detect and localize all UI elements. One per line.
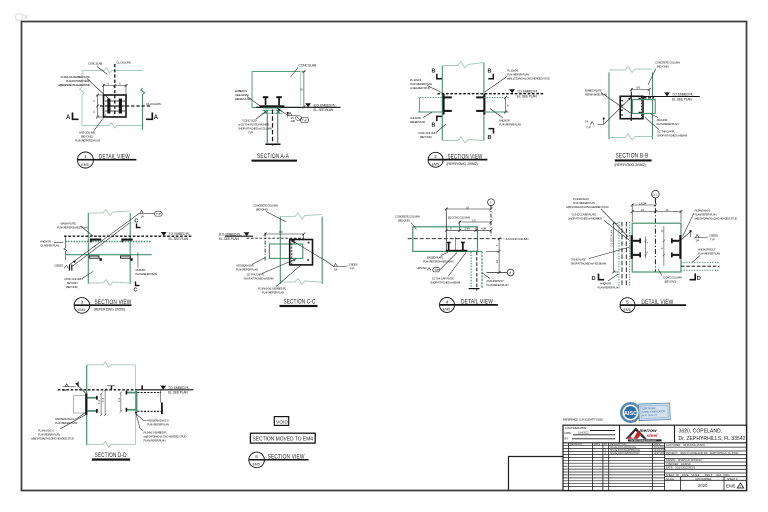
svg-text:2020: 2020 [698, 483, 708, 488]
svg-text:VOID: VOID [276, 419, 288, 425]
svg-text:DRAWN: MSD/CAD 10/4/2022: DRAWN: MSD/CAD 10/4/2022 [666, 459, 702, 462]
svg-text:(BEYOND): (BEYOND) [398, 219, 410, 223]
svg-text:SECTION B-B: SECTION B-B [616, 153, 649, 160]
washer lines under plate [262, 109, 283, 111]
stud cross ticks [105, 101, 125, 111]
svg-text:DATE: DATE [594, 443, 601, 446]
svg-text:PLAN REFER PLAN: PLAN REFER PLAN [499, 123, 521, 127]
svg-text:3620, COPELAND,: 3620, COPELAND, [679, 428, 723, 434]
left beam top flange green [87, 397, 97, 399]
bolt marks [293, 241, 310, 261]
vertical line C/L conc column [445, 212, 447, 251]
title bar [280, 305, 318, 307]
right I-beam stub bottom [672, 254, 680, 256]
top dim row 1 [631, 198, 657, 222]
elevation triangle marker [305, 103, 311, 107]
stud left [265, 98, 267, 106]
right embed plate (channel shape) [476, 94, 484, 115]
conc column right edge [321, 217, 323, 284]
svg-text:SECTION C-C: SECTION C-C [284, 299, 316, 306]
svg-text:TYP.: TYP. [248, 131, 253, 135]
column centerline vertical dashed [114, 64, 116, 117]
svg-text:1/16: 1/16 [291, 119, 296, 123]
detail 3 title line [428, 159, 487, 161]
dash-dot vertical [264, 233, 266, 261]
I-beam 1 (stud) [448, 243, 450, 250]
top break [609, 67, 653, 73]
dim extension lines above plate [102, 84, 128, 94]
green anchor line right bottom [484, 111, 509, 113]
svg-text:(E) CONC COLUMN: (E) CONC COLUMN [448, 216, 470, 220]
svg-text:SECTION A-A: SECTION A-A [257, 153, 289, 160]
svg-text:EM5: EM5 [432, 163, 439, 167]
svg-text:CONC SLAB: CONC SLAB [299, 64, 317, 68]
svg-text:JOB NUMBER: JOB NUMBER [695, 478, 712, 481]
beam beyond light rect [74, 396, 87, 413]
weld leader top-right [682, 232, 691, 240]
inner dashed vertical [291, 240, 293, 265]
svg-text:Dr. ZEPHYRHILLS, FL 33542: Dr. ZEPHYRHILLS, FL 33542 [679, 436, 746, 442]
detail 5 title bubble [74, 298, 90, 314]
long diagonal leader 2 [73, 223, 130, 266]
green dotted line [65, 241, 151, 243]
HSS column right wall [277, 111, 279, 144]
svg-text:4 3/4: 4 3/4 [481, 227, 487, 231]
channel flange end ticks [126, 391, 128, 395]
wall top break line [87, 362, 136, 368]
elevation triangle [509, 89, 515, 93]
detail 1 title line [77, 159, 136, 161]
revision triangle [737, 483, 743, 488]
T.O. embed dashed line [437, 93, 544, 95]
elevation triangle [664, 92, 670, 96]
top break [280, 213, 322, 219]
right assembly: channel web green [135, 390, 137, 412]
svg-text:EM5: EM5 [726, 484, 736, 489]
top break [88, 210, 130, 216]
section marker B bottom-left [437, 116, 442, 121]
svg-text:C/L REFER PLAN: C/L REFER PLAN [40, 244, 59, 248]
embed plate bottom bar [446, 250, 468, 252]
grid line right vertical (green) [141, 88, 145, 130]
elevation triangle [244, 232, 250, 236]
grid bubble 8 with line [486, 272, 507, 274]
TYP hexagon [300, 118, 309, 123]
svg-text:10/4/2022: 10/4/2022 [578, 432, 589, 435]
concrete column green rect [632, 223, 681, 272]
elevation triangle [161, 232, 167, 236]
detail 8 title bubble [620, 298, 635, 313]
svg-text:SHEET #: SHEET # [727, 478, 738, 481]
svg-text:EL. SEE PLAN: EL. SEE PLAN [314, 108, 334, 112]
svg-text:PLAN REFER PLAN: PLAN REFER PLAN [262, 291, 284, 295]
svg-text:SHOP ATTACHED w/ MEMBER: SHOP ATTACHED w/ MEMBER [568, 217, 602, 221]
weld arrow top-left [75, 383, 78, 386]
left beam bottom flange green [87, 410, 97, 412]
svg-text:EM5: EM5 [78, 308, 85, 312]
svg-text:TYP: TYP [350, 267, 355, 271]
svg-text:A: A [66, 115, 71, 121]
svg-text:4: 4 [446, 299, 449, 304]
diagonal weld leader [292, 240, 328, 262]
section marker D right [690, 274, 696, 280]
column face solid vertical [630, 92, 632, 122]
svg-text:EM5: EM5 [253, 463, 260, 467]
svg-text:3 SIDES: 3 SIDES [54, 264, 63, 268]
conc column left edge [608, 72, 610, 139]
svg-text:& D CONC COLUMN: & D CONC COLUMN [506, 237, 529, 241]
column centerline dashed horizontal [408, 238, 505, 240]
svg-text:SHOP ATTACHED w/ BEAM: SHOP ATTACHED w/ BEAM [244, 277, 275, 281]
top dim row 2 [631, 210, 683, 222]
weld tick above line [111, 385, 113, 389]
merrow steel logo [626, 428, 662, 443]
svg-text:6: 6 [255, 454, 258, 459]
svg-text:CHECKED: AS/MSD: CHECKED: AS/MSD [666, 463, 691, 466]
svg-text:HSS (SA): HSS (SA) [417, 266, 427, 270]
title bar [615, 159, 652, 161]
svg-text:(BEYOND): (BEYOND) [665, 280, 677, 284]
right embed plate thick bar [679, 235, 681, 259]
svg-text:REVISION: REVISION [570, 443, 582, 446]
title block outer frame [563, 425, 747, 490]
plate end ticks [90, 241, 133, 261]
vertical dim right [486, 237, 501, 274]
svg-text:PLAN REFER PLAN: PLAN REFER PLAN [144, 439, 166, 443]
svg-text:T.O. EMBED PL.: T.O. EMBED PL. [169, 232, 191, 236]
svg-text:PLAN REFER PLAN: PLAN REFER PLAN [698, 252, 720, 256]
HSS beam green rect overlay [632, 100, 655, 114]
svg-text:SHOP ATTACHED w/ BEAM: SHOP ATTACHED w/ BEAM [657, 134, 688, 138]
svg-text:PLAN REFER BASED PLAN: PLAN REFER BASED PLAN [423, 260, 454, 264]
weld flag [289, 112, 293, 115]
title bar [92, 458, 130, 460]
svg-text:C: C [134, 288, 138, 294]
svg-text:EL. SEE PLAN: EL. SEE PLAN [169, 237, 189, 241]
HSS column left wall [266, 111, 268, 144]
right beam dashed lines [681, 261, 720, 263]
column below: green dotted verticals [470, 252, 472, 289]
left wall black dashed lines [621, 222, 623, 287]
svg-text:1 3/4: 1 3/4 [465, 227, 471, 231]
bottom break [609, 134, 653, 140]
conc column left edge with breaks [441, 66, 443, 141]
embed plate black rect [290, 240, 313, 265]
bolt marks [639, 98, 641, 114]
T.O. embed dashed line [58, 389, 137, 391]
svg-text:w/(8) 3/4"DIAx0'-6"LONG HEADED: w/(8) 3/4"DIAx0'-6"LONG HEADED STUD [58, 83, 90, 87]
faint corner mark [16, 14, 29, 21]
svg-text:B: B [488, 135, 492, 141]
svg-text:steel: steel [647, 433, 659, 438]
svg-text:CUSTOMER: 3D PLUS & ASSOC.: CUSTOMER: 3D PLUS & ASSOC. [666, 444, 706, 447]
svg-text:B: B [432, 69, 436, 75]
dim marks left of channel [120, 391, 123, 412]
svg-text:TYP: TYP [710, 238, 715, 242]
bottom plate right [121, 256, 131, 258]
top break line [442, 62, 484, 69]
svg-text:(REFER DWG. 2/S502): (REFER DWG. 2/S502) [447, 162, 478, 166]
long diagonal leader 1 [69, 213, 139, 265]
svg-text:PLAN REFER PLAN: PLAN REFER PLAN [135, 272, 157, 276]
concrete column green rect [413, 227, 478, 252]
approvals cell divider [619, 425, 621, 443]
bottom break [88, 280, 130, 286]
svg-text:1'-4: 1'-4 [102, 397, 105, 402]
detail 3 title bubble [428, 152, 443, 167]
dim extension lines left of plate [96, 94, 103, 119]
grid bubble 11.5 [652, 190, 660, 198]
T.O. embed line [643, 96, 700, 98]
leader arrow down from channel [135, 412, 138, 415]
HSS beam green rect [269, 244, 302, 258]
hidden edge dashed vertical [641, 97, 643, 118]
conc column left edge [87, 213, 89, 284]
inner dim left [644, 237, 647, 259]
TYP hexagon top-right [154, 212, 162, 217]
detail 1 title bubble [77, 152, 93, 168]
section marker B bottom-right [489, 129, 494, 134]
project info sub-table [665, 447, 747, 490]
conc column right edge [652, 72, 654, 139]
grid centerline vertical [654, 198, 656, 272]
svg-text:EL. SEE PLAN: EL. SEE PLAN [517, 94, 537, 98]
embed plate square (plan) [104, 95, 127, 117]
slab bottom green line [252, 107, 301, 109]
column centerline [272, 110, 274, 146]
leader embed plate label [87, 79, 110, 100]
weld symbol leader [278, 109, 297, 116]
svg-text:PLAN REFER PLAN: PLAN REFER PLAN [486, 283, 508, 287]
stud column left [107, 99, 110, 114]
svg-text:B: B [432, 123, 436, 129]
svg-text:TYP: TYP [434, 268, 439, 272]
dim above plate [630, 88, 651, 96]
wall right edge green light [134, 365, 136, 445]
tick above T.O. line [141, 385, 143, 389]
svg-text:5: 5 [626, 300, 629, 305]
small arrow mark [603, 118, 605, 120]
svg-text:TYP: TYP [302, 118, 307, 122]
svg-text:D: D [592, 276, 596, 282]
column bottom end bar [265, 144, 280, 146]
channel bottom flange green [126, 409, 135, 411]
stud double tick [70, 265, 72, 271]
green solid line [65, 254, 151, 256]
svg-text:(BEYOND): (BEYOND) [657, 65, 669, 69]
svg-text:(BEYOND): (BEYOND) [256, 208, 268, 212]
svg-text:1'-0 3/4: 1'-0 3/4 [639, 201, 647, 205]
bottom plate left [89, 256, 99, 258]
svg-text:AISC: AISC [624, 411, 637, 417]
flange end ticks [96, 396, 98, 400]
green band under plate [263, 107, 282, 109]
svg-text:EL. SEE PLAN: EL. SEE PLAN [168, 391, 188, 395]
svg-text:SHOP ATTACHED w/ HSS BEAM: SHOP ATTACHED w/ HSS BEAM [571, 262, 607, 266]
grid bubble 9 [488, 199, 495, 206]
channel top flange green [126, 392, 135, 394]
svg-text:T.O. EMBED PL.: T.O. EMBED PL. [168, 386, 190, 390]
green dotted anchor line left [420, 97, 443, 99]
left anchor vertical [419, 98, 421, 113]
wall left edge green [86, 365, 88, 445]
svg-text:CUSTOMER APPR:: CUSTOMER APPR: [565, 426, 587, 430]
svg-text:w/(8) 3/4 DIAx0'-6 LONG HEADED: w/(8) 3/4 DIAx0'-6 LONG HEADED STUD [695, 217, 738, 221]
weld flag right [695, 237, 702, 239]
VOID box [274, 417, 288, 426]
small dims row [445, 227, 493, 232]
svg-text:AISC QUALITY: AISC QUALITY [642, 414, 658, 418]
svg-text:The Steel Detailing profession: The Steel Detailing professionals [630, 439, 656, 442]
embed plate assembly rect [620, 96, 643, 118]
embed plate bar [260, 105, 285, 107]
svg-text:1: 1 [84, 154, 87, 159]
slab dim right [302, 70, 306, 108]
conc slab outline left edge with break [80, 71, 85, 126]
section A-A title bar [252, 160, 298, 162]
empty cell box left of title block [509, 457, 564, 491]
detail 10 title bubble [249, 452, 265, 468]
svg-text:B.O. EMBED PL.: B.O. EMBED PL. [219, 232, 242, 236]
svg-text:w/(8) 3/4 DIAx0'-6 LONG HEADED: w/(8) 3/4 DIAx0'-6 LONG HEADED STUD [566, 205, 609, 209]
inner dim right extension [663, 226, 666, 266]
svg-text:11.5: 11.5 [652, 192, 657, 196]
T.O. embed dashed line [64, 235, 192, 237]
svg-text:T.O. EMBED PL.: T.O. EMBED PL. [672, 93, 694, 97]
svg-text:(REFER DWG. 2/S502): (REFER DWG. 2/S502) [94, 308, 125, 312]
B.O. embed line [225, 235, 253, 237]
svg-text:w/(4) 1/2"DIAx0'-4 LONG HEADED: w/(4) 1/2"DIAx0'-4 LONG HEADED STUD [507, 77, 550, 81]
column centerline horizontal dashed [100, 105, 152, 107]
svg-text:DATE: 10/27/2022 REV2: DATE: 10/27/2022 REV2 [666, 467, 696, 470]
left I-beam stub bottom [633, 254, 641, 256]
svg-text:PLAN REFER PLAN: PLAN REFER PLAN [657, 122, 679, 126]
svg-text:SHEET OF DATE SCALE: SHEET OF DATE SCALE REV # REF DWG [666, 474, 730, 477]
dim lines right of left assembly [100, 389, 107, 417]
title line [249, 459, 309, 461]
green anchor line left bottom [418, 111, 443, 113]
svg-text:EM5: EM5 [443, 308, 450, 312]
weld leader bottom-left [598, 98, 632, 125]
dashed horizontal centerline [247, 237, 304, 239]
svg-text:PLAN REFER PLAN: PLAN REFER PLAN [147, 423, 169, 427]
svg-text:BY: BY [604, 443, 608, 446]
title line [74, 304, 131, 306]
dim line 2 [458, 221, 492, 227]
svg-text:PLAN REFER PLAN: PLAN REFER PLAN [236, 268, 258, 272]
svg-text:T.O. EMBED PL.: T.O. EMBED PL. [517, 90, 539, 94]
left I-beam stub top [633, 240, 641, 242]
wall bottom break line [87, 442, 136, 448]
detail 7 title bubble [440, 298, 455, 313]
green dotted anchor line right [484, 97, 509, 99]
svg-text:D: D [697, 276, 701, 282]
revision table [569, 443, 665, 491]
svg-text:w/ HEADED STUD: w/ HEADED STUD [410, 86, 430, 90]
leader CONC SLAB [97, 67, 108, 75]
elevation triangle [160, 386, 166, 390]
dim line 1 [445, 206, 493, 212]
leader HSS column label [94, 115, 106, 131]
conc column right edge [483, 63, 485, 141]
B.O. embed pl line (black) [256, 106, 341, 108]
green beam line to column edge [467, 250, 482, 252]
svg-text:B: B [488, 69, 492, 75]
column bottom end tick [469, 288, 480, 289]
svg-text:(REFER DWG. 2/S502): (REFER DWG. 2/S502) [615, 163, 646, 167]
svg-text:2'-0 SEE PLAN: 2'-0 SEE PLAN [611, 230, 614, 247]
svg-text:EM5: EM5 [624, 308, 631, 312]
leader arrowhead [73, 261, 76, 264]
svg-text:PLAN ROTATED PLAN: PLAN ROTATED PLAN [75, 139, 100, 143]
conc slab outline top edge with break [82, 68, 143, 73]
slab right edge thin [300, 72, 302, 106]
top plate left [90, 239, 101, 241]
svg-text:ISSUE FOR FABRICATION: ISSUE FOR FABRICATION [610, 452, 640, 455]
AISC logo [621, 403, 670, 422]
left wall dotted green lines [618, 222, 620, 287]
column below: black dashed centerline [476, 252, 478, 291]
nut left (green X) [264, 110, 268, 114]
svg-text:w/(8) 3/4"DIAx0'-6"LONG HEADED: w/(8) 3/4"DIAx0'-6"LONG HEADED STUD [31, 437, 74, 441]
dashed hidden lines right [137, 392, 161, 394]
thin vertical line [159, 390, 161, 403]
SECTION MOVED TO EM4 box [250, 433, 315, 443]
svg-text:1'-2: 1'-2 [118, 397, 121, 402]
svg-text:(BEYOND): (BEYOND) [420, 135, 432, 139]
top plate right [121, 239, 132, 241]
svg-text:EL. SEE PLAN: EL. SEE PLAN [672, 97, 692, 101]
svg-text:SECTION MOVED TO EM4: SECTION MOVED TO EM4 [253, 436, 314, 442]
right I-beam stub top [672, 240, 680, 242]
left embed plate (channel shape) [444, 94, 452, 115]
svg-text:C/L COLUMN: C/L COLUMN [116, 61, 131, 65]
svg-text:C/L COLUMN: C/L COLUMN [146, 102, 161, 106]
svg-text:A: A [154, 115, 159, 121]
section marker C bottom [136, 282, 140, 286]
svg-text:B.O. EMBED PL.: B.O. EMBED PL. [314, 103, 337, 107]
svg-text:EL. SEE PLAN: EL. SEE PLAN [219, 237, 239, 241]
stud column right [119, 99, 122, 114]
svg-text:PLAN REFER PLAN: PLAN REFER PLAN [598, 286, 620, 290]
left embed plate thick bar [631, 235, 633, 259]
svg-text:EM5: EM5 [81, 163, 88, 167]
I-beam 2 (stud) [462, 243, 464, 250]
title line [620, 304, 686, 306]
stud right [278, 98, 280, 106]
conc column right edge [129, 213, 131, 284]
svg-text:CONC SLAB: CONC SLAB [88, 62, 102, 66]
conc column left edge [279, 217, 281, 284]
svg-text:REFER PLAN: REFER PLAN [410, 120, 425, 124]
svg-text:TYP: TYP [156, 212, 161, 216]
svg-text:1'-2: 1'-2 [98, 399, 101, 404]
svg-text:PROJECT: 3620 W COPELAND DR.: PROJECT: 3620 W COPELAND DR., ZEPHYRHILL… [666, 452, 739, 455]
title line [440, 304, 498, 306]
left extension vertical with break [64, 236, 67, 260]
bottom break [280, 279, 322, 285]
svg-text:(BEYOND): (BEYOND) [66, 285, 78, 289]
left outer dim [612, 222, 618, 274]
svg-text:3: 3 [81, 300, 84, 305]
svg-text:PLAN REFER BASED PLAN: PLAN REFER BASED PLAN [57, 226, 88, 230]
bottom break line [442, 137, 484, 144]
conc slab outline bottom edge with break [82, 123, 143, 128]
svg-text:TYP: TYP [586, 126, 591, 130]
svg-text:SCALE:: SCALE: [666, 478, 675, 481]
leaders to bottom-right labels [136, 414, 146, 421]
dim extension line between studs [454, 237, 456, 250]
